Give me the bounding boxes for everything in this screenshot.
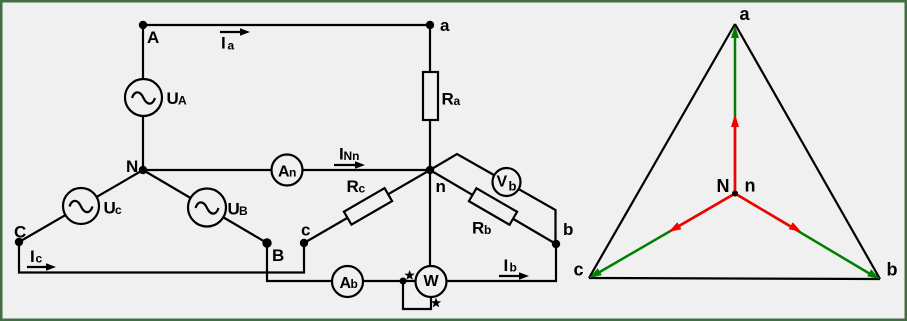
svg-text:R: R xyxy=(442,90,454,109)
phasor node Nn center xyxy=(732,191,738,197)
node B xyxy=(262,238,271,247)
svg-text:W: W xyxy=(424,273,440,290)
wire C-bottom-c xyxy=(19,242,304,273)
phasor red vector to a xyxy=(731,114,739,194)
svg-text:C: C xyxy=(14,223,26,242)
svg-text:R: R xyxy=(472,219,484,238)
svg-text:b: b xyxy=(510,261,517,275)
label UA xyxy=(167,89,188,108)
node b xyxy=(552,240,560,248)
svg-text:U: U xyxy=(167,89,179,108)
wire n-Rb-b diagonal xyxy=(430,170,556,244)
label UB xyxy=(228,200,249,219)
node c xyxy=(300,239,308,247)
wire N-UC-C diagonal xyxy=(19,170,143,242)
svg-text:I: I xyxy=(504,256,509,275)
wattmeter star mark 1 xyxy=(406,271,414,278)
node n xyxy=(426,166,434,174)
phasor Uc green vector N-c xyxy=(589,194,735,279)
node a xyxy=(426,21,434,29)
svg-text:N: N xyxy=(717,176,730,196)
current arrow Ib xyxy=(499,256,529,280)
svg-text:c: c xyxy=(359,182,366,196)
svg-text:a: a xyxy=(440,16,450,35)
svg-text:a: a xyxy=(454,94,461,108)
wire W voltage coil loop xyxy=(403,281,431,309)
svg-text:A: A xyxy=(178,94,187,108)
phasor red vector to c xyxy=(669,194,736,233)
junction W star terminal xyxy=(400,278,407,285)
svg-text:b: b xyxy=(887,260,898,280)
svg-text:c: c xyxy=(574,260,584,280)
wire N-An-n horizontal xyxy=(143,169,430,171)
svg-text:I: I xyxy=(221,34,226,53)
svg-text:n: n xyxy=(745,176,756,196)
svg-text:A: A xyxy=(147,28,159,47)
ammeter An xyxy=(272,155,303,186)
phasor red vector to b xyxy=(735,194,802,233)
svg-text:Nn: Nn xyxy=(344,149,360,163)
svg-text:V: V xyxy=(497,174,508,191)
current arrow Ia xyxy=(220,28,250,52)
svg-text:a: a xyxy=(228,39,235,53)
voltmeter Vb xyxy=(493,168,521,196)
current arrow INn xyxy=(334,145,365,169)
svg-text:c: c xyxy=(301,221,310,240)
svg-text:B: B xyxy=(239,204,248,218)
wire N-UB-B diagonal xyxy=(143,170,267,243)
source UC xyxy=(63,188,99,224)
label Rb xyxy=(472,219,491,238)
node N xyxy=(139,166,147,174)
svg-text:n: n xyxy=(436,177,446,196)
node C xyxy=(15,238,23,246)
phasor triangle edge c-a xyxy=(589,24,735,278)
current arrow Ic xyxy=(27,247,56,271)
label Rc xyxy=(347,177,366,196)
node A xyxy=(139,21,147,29)
svg-text:U: U xyxy=(104,199,116,218)
svg-text:B: B xyxy=(272,246,284,265)
phasor Ua green vector N-a xyxy=(731,25,739,194)
svg-text:b: b xyxy=(563,220,573,239)
svg-text:N: N xyxy=(126,157,138,176)
wattmeter star mark 2 xyxy=(432,299,440,306)
wire A-UA-N vertical xyxy=(142,25,144,170)
svg-text:n: n xyxy=(289,166,296,180)
svg-text:b: b xyxy=(509,179,517,194)
resistor Rb xyxy=(469,188,517,225)
svg-text:c: c xyxy=(115,203,122,217)
phasor triangle edge a-b xyxy=(735,24,880,279)
ammeter Ab xyxy=(332,266,363,297)
svg-text:U: U xyxy=(228,200,240,219)
svg-text:R: R xyxy=(347,177,359,196)
source UB xyxy=(188,189,226,227)
wire A-a top xyxy=(143,24,430,26)
svg-text:b: b xyxy=(484,223,491,237)
source UA xyxy=(125,79,162,116)
label UC xyxy=(104,199,123,218)
wire B-Ab-W-b bottom xyxy=(267,243,556,281)
resistor Ra xyxy=(423,72,438,120)
resistor Rc xyxy=(344,188,392,225)
wire n-Rc-c diagonal xyxy=(304,170,430,243)
svg-text:I: I xyxy=(30,247,35,266)
svg-text:c: c xyxy=(36,252,43,266)
svg-text:a: a xyxy=(740,4,751,24)
wire a-Ra-n-W vertical xyxy=(429,25,431,281)
wattmeter W xyxy=(416,266,447,297)
phasor Ub green vector N-b xyxy=(735,194,880,280)
svg-text:b: b xyxy=(351,277,358,291)
label Ra xyxy=(442,90,461,109)
wire n-Vb-b voltmeter loop xyxy=(430,154,556,244)
phasor triangle edge b-c xyxy=(589,278,880,279)
